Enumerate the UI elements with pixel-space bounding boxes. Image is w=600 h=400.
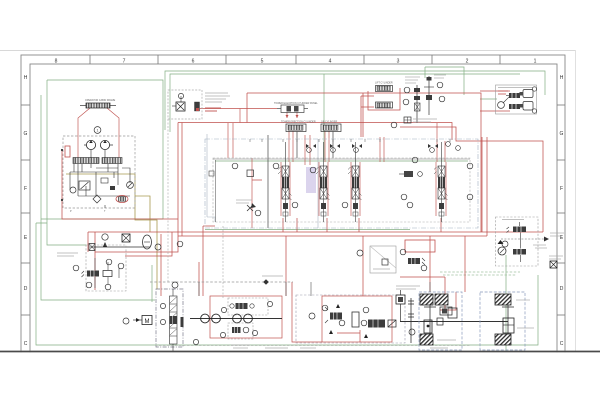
- balloon 27: [357, 250, 363, 256]
- rear axle shaft wire: [502, 305, 514, 334]
- dashed drain wire x223: [222, 226, 224, 298]
- balloon 7: [439, 96, 445, 102]
- svg-text:D: D: [560, 286, 564, 292]
- label planetary text: [516, 299, 530, 301]
- holding valve column V3: [414, 85, 420, 123]
- olive drain wire: [66, 174, 157, 289]
- balloon 20: [160, 319, 165, 324]
- balloon 5: [403, 99, 409, 105]
- manifold bar M1: [73, 158, 99, 164]
- brake valve V16: [440, 307, 452, 315]
- check valve CV2 arrows: [247, 203, 256, 211]
- valve V5 spool: [506, 93, 520, 98]
- label front axle: [437, 339, 456, 341]
- gear pump G4: [244, 314, 253, 323]
- svg-text:TOWER ELEVATION CYLINDER PANEL: TOWER ELEVATION CYLINDER PANEL: [274, 102, 318, 105]
- svg-text:C: C: [24, 341, 28, 347]
- label speed sensor note: [396, 286, 420, 289]
- brake cylinder BC1: [424, 320, 432, 333]
- rear wheel W5: [495, 294, 511, 305]
- valve V8 spool: [82, 271, 100, 278]
- label to steering note: [550, 233, 564, 236]
- accumulator ACC2: [352, 312, 359, 327]
- svg-text:H: H: [560, 75, 564, 81]
- valve station SV3: [348, 142, 362, 222]
- manifold port ticks: [250, 139, 450, 142]
- pump P1: [84, 140, 96, 149]
- svg-text:M: M: [145, 319, 150, 325]
- balloon 28: [309, 313, 315, 319]
- wire manifold left rail: [215, 160, 217, 222]
- group wires U3: [95, 258, 119, 288]
- balloon 29: [409, 329, 415, 335]
- cylinder CYL2: [321, 124, 341, 132]
- label valve small texts: [533, 245, 547, 248]
- valve station SV2: [316, 142, 330, 222]
- page top edge line: [0, 50, 576, 52]
- valve V9 spool: [103, 271, 112, 277]
- lower valve dashed box U7: [228, 323, 253, 339]
- wire cylinder drop lines: [268, 132, 333, 229]
- rear gearbox GB1: [503, 318, 514, 333]
- valve V10 spool: [507, 222, 527, 233]
- blue-gray section boundary wire: [207, 134, 318, 228]
- brake release valve box V2: [168, 90, 202, 119]
- pilot port block: [209, 171, 214, 176]
- drawing frame inner border: [30, 64, 557, 355]
- label red warn lines: [498, 91, 508, 94]
- sensor box S4: [437, 318, 443, 325]
- frame row ticks left: [21, 105, 30, 315]
- speed sensor box PS2: [396, 290, 405, 322]
- label main control note: [405, 77, 420, 83]
- label text emergency: [57, 253, 78, 256]
- viewer crop mask bottom: [0, 352, 600, 400]
- relief valve R1 red: [65, 146, 70, 157]
- svg-text:LIFT CYLINDER: LIFT CYLINDER: [375, 82, 393, 85]
- balloon 4: [404, 87, 410, 93]
- brake port box B1: [550, 261, 557, 268]
- swing valve group V17: [400, 240, 435, 271]
- selected section highlight: [306, 167, 316, 193]
- manifold balloons: [177, 157, 473, 247]
- cylinder CYL1: [286, 124, 306, 132]
- power unit enclosure U1: [63, 136, 135, 208]
- steering priority box U4: [496, 217, 539, 266]
- frame row ticks right: [557, 105, 565, 315]
- junction dots: [61, 149, 63, 151]
- arrow valve V7: [89, 242, 150, 251]
- note text red warning: [205, 108, 221, 111]
- front wheel W3: [435, 294, 448, 305]
- balloon 14: [106, 259, 112, 265]
- solenoid S3 bar: [181, 317, 184, 327]
- check valve CV1: [247, 170, 254, 177]
- brake valve V15: [339, 307, 396, 338]
- pump P2: [100, 140, 113, 149]
- shuttle M1 circle: [498, 96, 510, 108]
- balloon 11: [102, 234, 108, 240]
- svg-text:6: 6: [192, 59, 195, 65]
- balloon 24: [220, 332, 225, 337]
- label outrigger title: [498, 87, 533, 89]
- accumulator ACC1: [143, 235, 152, 249]
- pressure switch PS1: [404, 117, 411, 123]
- svg-text:TOWER ERECTION CYLINDER: TOWER ERECTION CYLINDER: [281, 121, 316, 124]
- rear axle dashed box U11: [480, 292, 525, 350]
- gauge G2: [127, 182, 134, 189]
- valve V13: [232, 327, 249, 333]
- balloon 30: [502, 241, 508, 247]
- balloon 6: [437, 82, 443, 88]
- label tower brake note: [549, 256, 563, 259]
- balloon 17: [105, 284, 111, 290]
- cylinder CYL3: [376, 86, 393, 92]
- front axle shaft wire: [424, 305, 436, 335]
- front wheel W2: [420, 294, 433, 305]
- red wires bottom groups: [210, 292, 456, 342]
- stack valve column SV5: [170, 289, 178, 351]
- viewer bottom crop line: [0, 351, 600, 353]
- cylinder CYL6: [520, 102, 534, 111]
- balloon 1 pump drive: [94, 127, 101, 134]
- svg-text:H: H: [24, 75, 28, 81]
- outrigger control box U2: [496, 85, 537, 114]
- green dashed return wire pair: [440, 272, 520, 275]
- panel valve A1: [277, 105, 308, 118]
- oil tank box U8: [370, 246, 396, 273]
- front wheel W4: [420, 334, 433, 345]
- label steering title: [502, 219, 524, 221]
- label low pressure note: [434, 75, 446, 78]
- balloon 26: [193, 339, 198, 344]
- balloon 19: [160, 303, 165, 308]
- balloon 22: [221, 307, 226, 312]
- transfer box T1: [448, 308, 457, 318]
- svg-text:JIB CYLINDER: JIB CYLINDER: [321, 121, 337, 124]
- frame column numbers: [55, 59, 537, 65]
- balloon 10: [532, 109, 536, 113]
- coupling bar K1: [80, 103, 116, 108]
- pump shaft wire: [190, 318, 282, 320]
- red pressure trunk wire y93: [62, 88, 543, 310]
- svg-text:F: F: [24, 186, 27, 192]
- svg-text:8: 8: [55, 59, 58, 65]
- valve station SV1: [278, 142, 292, 222]
- svg-text:5: 5: [261, 59, 264, 65]
- pump block enclosure U5: [156, 289, 183, 347]
- balloon 15: [118, 263, 124, 269]
- counterbalance column V4: [424, 76, 434, 115]
- motor M3 box: [133, 316, 152, 326]
- svg-text:1: 1: [97, 129, 99, 133]
- svg-text:C: C: [560, 341, 564, 347]
- svg-text:4: 4: [329, 59, 332, 65]
- front axle dashed box U10: [419, 292, 462, 350]
- charge pump dashed box U6: [228, 298, 268, 315]
- svg-text:3: 3: [397, 59, 400, 65]
- dashed drain wire x168: [167, 119, 169, 282]
- gauge G1: [70, 187, 76, 193]
- drawing frame outer border: [21, 55, 565, 355]
- svg-text:1: 1: [534, 59, 537, 65]
- svg-text:F: F: [560, 186, 563, 192]
- svg-text:D: D: [24, 286, 28, 292]
- motor M2 circle: [498, 247, 506, 255]
- label bottom texts: [265, 347, 448, 349]
- label main pump text: [231, 345, 250, 348]
- viewer bottom crop line redraw: [0, 351, 600, 353]
- bottom long dashed boundary: [155, 345, 470, 347]
- label lift head pressure: [413, 119, 437, 122]
- balloon 2: [178, 93, 183, 98]
- manifold top rail: [213, 158, 470, 160]
- svg-text:OPERATOR CABIN FRAME: OPERATOR CABIN FRAME: [85, 99, 116, 102]
- check arrow A2: [498, 240, 504, 244]
- balloon 13: [73, 265, 79, 271]
- note text boom descent: [205, 93, 230, 102]
- label rear axle: [517, 327, 534, 329]
- red branch wires central area: [78, 91, 510, 228]
- main manifold boundary: [205, 139, 478, 228]
- main manifold inner dashed box: [213, 158, 470, 222]
- balloon 12: [155, 244, 161, 250]
- gauge cluster right of manifold: [399, 171, 422, 177]
- valve V2 spool: [172, 96, 185, 111]
- label section note: [236, 200, 252, 203]
- drive shaft wire: [400, 321, 508, 323]
- valve V6 spool: [509, 104, 520, 109]
- gear pump G3: [233, 314, 242, 323]
- cylinder CYL5: [520, 90, 534, 98]
- solenoid S2 box: [122, 234, 130, 242]
- driveline couplings: [408, 298, 414, 343]
- frame row letters right: [560, 75, 564, 347]
- balloon 23: [267, 301, 272, 306]
- travel group dashed box U9: [296, 295, 405, 343]
- emergency valve box U3: [86, 245, 126, 291]
- balloon 9: [532, 87, 536, 91]
- valve V11 spool: [513, 233, 526, 263]
- misc tie wires bottom: [199, 282, 430, 296]
- svg-text:2: 2: [466, 59, 469, 65]
- frame row letters left: [24, 75, 28, 347]
- steering takeoff dashed wire: [501, 237, 549, 242]
- rear wheel W6: [495, 334, 511, 345]
- valve V1: [79, 181, 90, 190]
- gear pump G1: [201, 314, 210, 323]
- green pilot supply wire net top: [36, 67, 545, 351]
- page right edge line: [575, 50, 577, 351]
- solenoid S1: [195, 102, 200, 111]
- valve station SV4: [434, 142, 448, 222]
- pilot head cluster W1: [306, 142, 460, 153]
- svg-text:G: G: [560, 131, 564, 137]
- svg-text:7: 7: [123, 59, 126, 65]
- balloon 21: [123, 318, 129, 324]
- valve V12 spool: [230, 303, 254, 309]
- balloon 16: [86, 282, 92, 288]
- pump unit internal wires: [70, 150, 130, 208]
- balloon 18: [172, 282, 178, 288]
- balloon 8: [391, 122, 397, 128]
- tank return dashed wire with diamond: [150, 276, 293, 285]
- valve V14 cluster: [322, 304, 342, 334]
- gear pump G2: [212, 314, 221, 323]
- frame column ticks top: [90, 55, 500, 64]
- cylinder CYL4: [376, 102, 393, 108]
- manifold bar M2: [102, 158, 122, 164]
- svg-text:G: G: [24, 131, 28, 137]
- balloon 25: [252, 330, 257, 335]
- filter F1: [93, 195, 101, 203]
- cooler C1: [116, 195, 128, 202]
